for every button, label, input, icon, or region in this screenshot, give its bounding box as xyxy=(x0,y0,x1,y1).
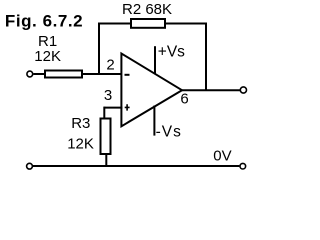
plus sign non-inverting input xyxy=(125,104,130,110)
wire R2 right to corner xyxy=(166,23,207,25)
ground terminal left xyxy=(27,163,33,169)
input terminal circle xyxy=(27,71,33,77)
svg-text:0V: 0V xyxy=(213,147,231,164)
wire feedback left vertical xyxy=(98,24,100,75)
resistor R3 xyxy=(101,119,111,155)
minus sign inverting input xyxy=(125,74,130,76)
wire top to R2 left xyxy=(98,23,131,25)
svg-text:12K: 12K xyxy=(34,48,61,65)
ground terminal right xyxy=(240,163,246,169)
0V rail wire xyxy=(33,165,240,167)
svg-text:Fig. 6.7.2: Fig. 6.7.2 xyxy=(5,12,83,31)
+Vs supply line xyxy=(154,46,156,74)
wire input to R1 xyxy=(33,73,45,75)
wire pin 3 down to R3 xyxy=(103,107,105,119)
-Vs supply line xyxy=(153,106,155,136)
resistor R2 xyxy=(131,19,165,28)
wire R3 to 0V rail xyxy=(105,154,107,167)
wire R1 to op-amp pin 2 xyxy=(83,73,122,75)
resistor R1 xyxy=(45,71,82,78)
op-amp U1 triangle xyxy=(121,54,182,127)
svg-text:6: 6 xyxy=(180,91,188,108)
svg-text:2: 2 xyxy=(106,56,114,73)
svg-text:+Vs: +Vs xyxy=(158,44,185,61)
output terminal circle xyxy=(240,87,246,93)
wire output xyxy=(181,89,240,91)
svg-text:R2 68K: R2 68K xyxy=(122,1,172,18)
svg-text:12K: 12K xyxy=(67,136,94,153)
svg-text:-Vs: -Vs xyxy=(156,123,182,140)
wire feedback right vertical xyxy=(205,23,207,91)
svg-text:R3: R3 xyxy=(71,115,90,132)
wire op-amp pin 3 xyxy=(104,107,122,109)
svg-text:3: 3 xyxy=(104,87,112,104)
